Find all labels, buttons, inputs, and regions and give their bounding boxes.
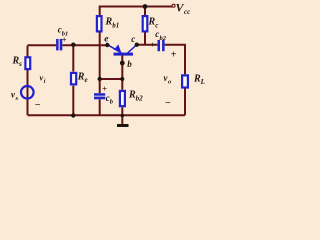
svg-text:+: + bbox=[102, 84, 107, 94]
svg-text:−: − bbox=[165, 98, 171, 109]
svg-text:L: L bbox=[200, 78, 205, 86]
svg-text:c: c bbox=[131, 34, 135, 44]
svg-text:R: R bbox=[148, 17, 156, 28]
svg-text:s: s bbox=[15, 95, 19, 102]
svg-text:b: b bbox=[127, 59, 132, 69]
svg-text:+: + bbox=[62, 35, 67, 45]
svg-text:e: e bbox=[85, 76, 88, 84]
svg-text:b2: b2 bbox=[136, 94, 144, 102]
svg-text:s: s bbox=[18, 60, 22, 68]
svg-text:R: R bbox=[105, 17, 113, 28]
svg-text:+: + bbox=[171, 50, 177, 61]
svg-text:b1: b1 bbox=[112, 22, 119, 30]
svg-text:−: − bbox=[35, 100, 41, 111]
svg-text:+: + bbox=[150, 40, 155, 50]
svg-text:b2: b2 bbox=[160, 35, 167, 42]
svg-text:cc: cc bbox=[184, 8, 190, 16]
